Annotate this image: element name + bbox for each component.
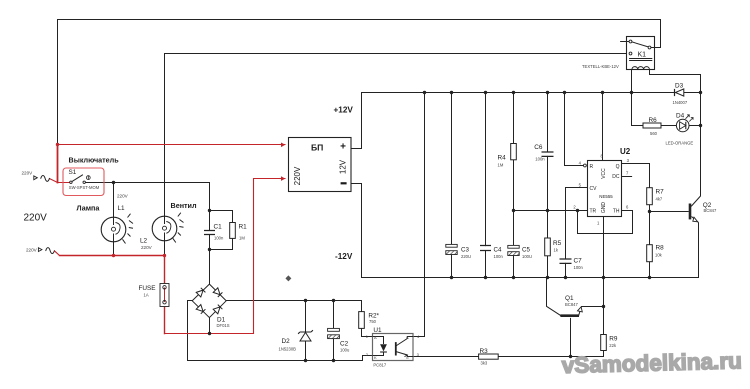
svg-text:1A: 1A xyxy=(144,293,149,298)
wire 555 VCC riser xyxy=(602,93,604,161)
wire 555 DC pin stub xyxy=(622,176,632,178)
capacitor C4 xyxy=(480,246,503,259)
svg-text:220V: 220V xyxy=(24,213,48,224)
fuse FU1 xyxy=(160,284,169,307)
svg-text:5: 5 xyxy=(579,183,582,188)
svg-text:12V: 12V xyxy=(339,159,348,174)
svg-text:SW-SPST-MOM: SW-SPST-MOM xyxy=(69,185,100,190)
svg-text:2: 2 xyxy=(366,352,369,357)
wire node A horizontal to TR pin xyxy=(514,210,588,212)
transistor Q1 BC847 xyxy=(560,295,582,316)
wire bridge right corner DC-plus to R2 and U1 pin1 xyxy=(226,301,372,337)
svg-text:DC: DC xyxy=(612,174,620,180)
wire Q1 base stub xyxy=(570,318,572,356)
svg-text:U2: U2 xyxy=(620,147,631,156)
svg-text:vSamodelkina.ru: vSamodelkina.ru xyxy=(561,348,742,378)
wire C3 branch xyxy=(451,93,453,278)
wire R6 D4 row xyxy=(632,93,701,126)
capacitor C2 electrolytic xyxy=(328,328,350,352)
svg-text:7: 7 xyxy=(626,171,629,176)
svg-text:100n: 100n xyxy=(574,265,584,270)
wire outer top loop from relay common to live node xyxy=(58,20,661,146)
wire 555 Q output to R7 xyxy=(622,164,650,188)
lamp L2 fan xyxy=(152,213,183,243)
wire 555 CV to C7 xyxy=(566,188,588,278)
svg-text:PC817: PC817 xyxy=(373,363,386,368)
svg-text:4: 4 xyxy=(579,161,582,166)
svg-text:D3: D3 xyxy=(675,83,684,90)
resistor R4 xyxy=(498,144,517,168)
wire Q1 emitter to R9 node xyxy=(579,307,604,316)
wire C1 R1 dropper branch down to bridge xyxy=(209,183,211,285)
capacitor C6 xyxy=(534,144,553,162)
svg-text:Выключатель: Выключатель xyxy=(69,155,120,164)
wire Q2 base from R7 R8 node xyxy=(650,211,689,213)
svg-text:BC847: BC847 xyxy=(565,302,578,307)
svg-text:560: 560 xyxy=(650,131,658,136)
svg-text:R3: R3 xyxy=(480,348,489,355)
wire L2 lamp bottom xyxy=(164,241,166,256)
node dots D3 D4 column xyxy=(699,124,702,127)
capacitor C5 electrolytic xyxy=(508,245,532,259)
node dots Q2 R7 R8 xyxy=(648,210,651,213)
svg-text:220V: 220V xyxy=(141,245,153,250)
svg-text:1M: 1M xyxy=(239,236,245,241)
relay K1 TEXTELL-KBE-12V xyxy=(582,37,661,70)
svg-text:A: A xyxy=(374,335,377,340)
resistor R7 xyxy=(647,188,664,205)
svg-text:750: 750 xyxy=(369,319,377,324)
svg-text:C7: C7 xyxy=(574,258,583,265)
resistor R8 xyxy=(647,244,664,261)
resistor R2* xyxy=(359,312,380,329)
svg-text:E: E xyxy=(406,355,409,360)
svg-text:LED-ORANGE: LED-ORANGE xyxy=(666,140,694,145)
svg-text:TH: TH xyxy=(613,208,620,214)
svg-text:100n: 100n xyxy=(535,157,545,162)
svg-text:1N5230B: 1N5230B xyxy=(279,347,297,352)
svg-text:БП: БП xyxy=(311,142,323,152)
svg-text:10k: 10k xyxy=(655,253,663,258)
svg-text:1: 1 xyxy=(597,221,600,226)
node dots bottom rail xyxy=(450,276,453,279)
timer U2 NE555 xyxy=(573,147,630,226)
svg-text:2: 2 xyxy=(573,205,576,210)
svg-text:R1: R1 xyxy=(239,224,248,231)
optocoupler U1 PC817 xyxy=(366,327,420,367)
node dots node A line xyxy=(512,209,515,212)
svg-text:TEXTELL-KBE-12V: TEXTELL-KBE-12V xyxy=(582,64,619,69)
wire R7 to R8 xyxy=(649,205,651,278)
node dot L1 top xyxy=(112,181,115,184)
resistor R1 xyxy=(230,223,247,241)
zener diode D2 1N5230B xyxy=(279,330,313,351)
svg-text:C1: C1 xyxy=(214,224,223,231)
svg-text:R9: R9 xyxy=(609,336,618,343)
wire switched live S1 to C1 branch corner xyxy=(85,182,209,184)
wire L1 lamp branch xyxy=(113,183,115,256)
wire right vertical to Q2 collector xyxy=(692,93,701,207)
wire Q1 collector to rail xyxy=(547,278,561,316)
wire relay NO contact to fan L2 xyxy=(165,54,630,217)
svg-text:C5: C5 xyxy=(522,246,530,253)
terminal 220V bottom xyxy=(26,247,60,255)
switch S1 red highlight box xyxy=(63,168,104,196)
svg-text:S1: S1 xyxy=(69,169,77,176)
wire red neutral terminal to fuse xyxy=(60,256,165,334)
svg-text:K: K xyxy=(374,355,377,360)
wire bridge bottom stub to neutral xyxy=(209,318,211,334)
wire C2 branch xyxy=(333,301,335,361)
svg-text:R8: R8 xyxy=(656,244,665,251)
node dots Q1 area xyxy=(569,355,572,358)
svg-text:R4: R4 xyxy=(498,155,507,162)
wire R9 branch and 555 GND riser xyxy=(603,216,605,356)
capacitor C7 xyxy=(560,258,584,271)
svg-text:GND: GND xyxy=(601,202,607,214)
svg-text:NE555: NE555 xyxy=(599,194,613,199)
wire C5 branch below node A xyxy=(513,211,515,278)
svg-text:L2: L2 xyxy=(140,237,148,244)
svg-text:C6: C6 xyxy=(534,144,543,151)
svg-text:VCC: VCC xyxy=(601,168,607,179)
resistor R5 xyxy=(545,238,562,256)
svg-text:Q1: Q1 xyxy=(565,295,574,302)
resistor R6 xyxy=(643,117,661,136)
svg-text:-12V: -12V xyxy=(335,252,353,261)
terminal 220V top xyxy=(22,170,50,181)
svg-text:220V: 220V xyxy=(293,166,302,185)
wire R5 branch xyxy=(547,211,549,278)
wire -12V rail xyxy=(351,184,699,278)
lamp L1 xyxy=(101,214,133,244)
svg-text:Лампа: Лампа xyxy=(77,204,101,213)
node dots top rail xyxy=(423,91,426,94)
svg-text:4k7: 4k7 xyxy=(656,197,663,202)
svg-text:C3: C3 xyxy=(461,246,469,253)
power supply block BP xyxy=(281,138,351,192)
wire U1 pin4 riser to +12V rail xyxy=(413,93,424,337)
diode D3 1N4007 xyxy=(673,83,688,106)
node dot bridge bottom on neutral xyxy=(208,332,211,335)
svg-text:1M: 1M xyxy=(498,163,504,168)
svg-text:R7: R7 xyxy=(656,188,665,195)
svg-text:Q: Q xyxy=(616,164,620,170)
resistor R3 xyxy=(479,348,499,365)
WIRES-RED xyxy=(50,145,285,334)
svg-text:D2: D2 xyxy=(282,338,291,345)
wire red live terminal to S1 and BP input 1 xyxy=(50,145,285,183)
wire 555 R pin to +12V xyxy=(565,93,584,166)
wire opto emitter line with R3 to R9 xyxy=(413,356,603,358)
node dots C1 R1 xyxy=(208,209,211,212)
wire red live riser thick xyxy=(57,145,59,183)
svg-text:8: 8 xyxy=(601,154,604,159)
svg-text:CV: CV xyxy=(590,186,598,192)
svg-text:220V: 220V xyxy=(117,194,129,199)
svg-text:100n: 100n xyxy=(494,254,504,259)
svg-text:100U: 100U xyxy=(522,254,532,259)
wire bridge left corner to DC-minus rail xyxy=(188,301,373,361)
svg-text:220U: 220U xyxy=(461,254,471,259)
capacitor C3 electrolytic xyxy=(446,244,471,259)
wire R1 parallel loop xyxy=(210,211,233,250)
svg-text:R: R xyxy=(590,164,594,170)
svg-text:3k3: 3k3 xyxy=(481,361,488,366)
wire Q2 emitter down to rail xyxy=(698,223,700,278)
svg-text:1N4007: 1N4007 xyxy=(673,100,688,105)
svg-text:DF01S: DF01S xyxy=(217,323,230,328)
wire D2 zener branch xyxy=(305,301,307,361)
wire R4 branch xyxy=(513,93,515,211)
node dots D2 C2 xyxy=(304,299,307,302)
svg-text:FUSE: FUSE xyxy=(139,285,156,292)
red node dots on neutral wire xyxy=(56,143,166,257)
wire K1 coil pins xyxy=(632,70,701,93)
svg-text:100u: 100u xyxy=(340,348,350,353)
svg-text:R6: R6 xyxy=(649,117,658,124)
svg-text:22k: 22k xyxy=(609,343,617,348)
capacitor C1 xyxy=(204,224,224,241)
svg-text:220V: 220V xyxy=(22,170,34,175)
wire C6 branch xyxy=(547,93,549,211)
wire C4 branch xyxy=(485,93,487,278)
svg-text:R5: R5 xyxy=(553,240,562,247)
svg-text:BC847: BC847 xyxy=(704,208,717,213)
svg-text:TR: TR xyxy=(590,208,597,214)
svg-text:1k: 1k xyxy=(554,247,559,252)
svg-text:+12V: +12V xyxy=(334,106,354,115)
wire +12V rail with gap for D3 xyxy=(351,93,701,149)
svg-text:C4: C4 xyxy=(494,246,502,253)
transistor Q2 BC847 xyxy=(690,202,717,223)
wire red fuse to bridge and BP input 2 xyxy=(165,179,286,334)
svg-text:C: C xyxy=(406,335,409,340)
svg-text:220V: 220V xyxy=(26,247,38,252)
svg-text:+: + xyxy=(340,141,346,152)
svg-text:D4: D4 xyxy=(676,112,685,119)
wire TR TH loop under 555 xyxy=(578,211,633,234)
svg-text:K1: K1 xyxy=(638,52,647,59)
svg-text:Вентил: Вентил xyxy=(171,201,197,210)
svg-text:100n: 100n xyxy=(214,236,224,241)
svg-text:3: 3 xyxy=(627,158,630,163)
switch S1 xyxy=(69,169,100,190)
resistor R9 xyxy=(601,335,618,351)
svg-text:L1: L1 xyxy=(118,205,126,212)
LED D4 LED-ORANGE xyxy=(666,112,694,145)
svg-text:6: 6 xyxy=(626,205,629,210)
bridge rectifier D1 DF01S xyxy=(192,284,226,318)
marker diamond xyxy=(285,275,291,281)
